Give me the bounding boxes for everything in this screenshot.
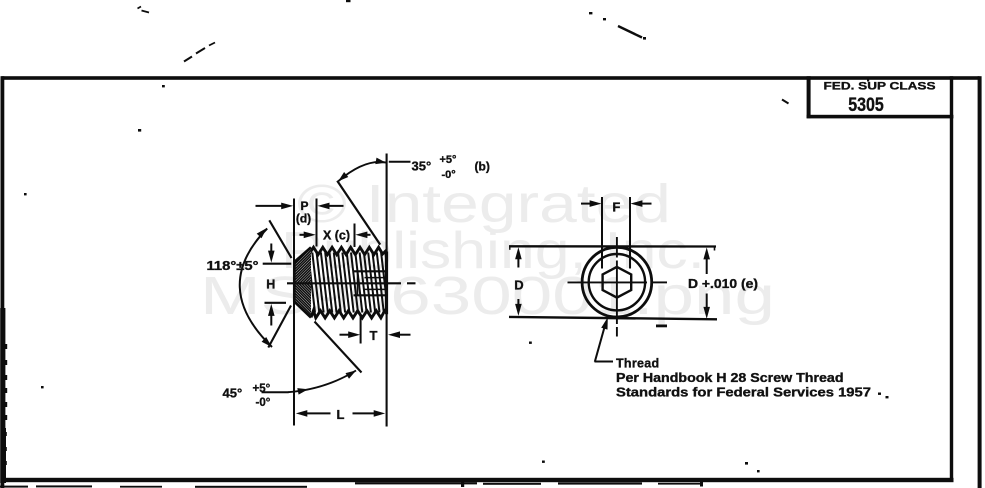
- dimension D left upper arrow: [515, 247, 522, 267]
- chamfer extension line 35deg: [337, 181, 380, 245]
- dimension L left arrow: [296, 410, 331, 417]
- label H: [266, 277, 275, 291]
- F extension line left: [601, 197, 603, 269]
- extension line left (point flat / L datum): [293, 199, 295, 426]
- label D +.010 (e): [688, 277, 758, 291]
- screw thread flank lines: [308, 253, 392, 313]
- cone point hatching bottom: [238, 247, 347, 318]
- dimension P right arrow: [318, 203, 344, 210]
- svg-text:D: D: [514, 278, 523, 293]
- scan speck top-left squiggle: [138, 7, 150, 13]
- H lower arrow: [268, 304, 275, 326]
- dimension D right lower arrow: [703, 294, 710, 319]
- dimension X left arrow: [300, 232, 316, 239]
- border left edge nubs: [0, 308, 7, 483]
- border frame bottom: [1, 478, 954, 482]
- border frame left: [1, 76, 5, 488]
- border frame right inner: [950, 76, 953, 482]
- screw thread crest outline top: [310, 247, 386, 254]
- cone angle arc 118: [240, 228, 272, 347]
- svg-text:+5°: +5°: [253, 383, 271, 395]
- screw centerline: [287, 282, 416, 284]
- label 118 deg +-5: [207, 259, 259, 273]
- socket hidden partial upper: [365, 277, 387, 279]
- label 45 deg: [223, 386, 243, 401]
- scan dash below D dimension: [656, 325, 667, 328]
- screw thread crest outline bottom: [311, 311, 386, 318]
- svg-text:35°: 35°: [412, 159, 432, 174]
- chamfer extension line 45deg: [315, 322, 362, 373]
- label -0 deg (35): [442, 169, 456, 181]
- svg-text:F: F: [612, 200, 620, 215]
- D bottom tangent line: [509, 317, 717, 319]
- svg-text:FED. SUP CLASS: FED. SUP CLASS: [824, 81, 936, 93]
- dimension D left lower arrow: [515, 299, 522, 316]
- dimension L right arrow: [353, 410, 386, 417]
- extension line T left: [360, 316, 362, 344]
- label (d): [296, 212, 311, 226]
- note line 2 handbook: [616, 371, 844, 385]
- svg-text:45°: 45°: [223, 386, 243, 401]
- H upper arrow: [268, 244, 275, 263]
- svg-text:MS90630001.png: MS90630001.png: [200, 266, 775, 326]
- scan dashed slash upper-left: [184, 43, 215, 62]
- socket hidden line lower: [354, 294, 387, 296]
- scan dots right of note: [878, 393, 889, 399]
- svg-text:D +.010 (e): D +.010 (e): [688, 277, 758, 291]
- end view outer circle: [582, 247, 652, 317]
- scan dot inside top area: [162, 85, 165, 87]
- svg-text:-0°: -0°: [256, 397, 271, 409]
- watermark line 1: [297, 174, 671, 234]
- svg-text:-0°: -0°: [442, 169, 456, 181]
- label +5 deg (35): [440, 154, 457, 166]
- label 35 deg: [412, 159, 432, 174]
- end view horizontal centerline: [568, 281, 668, 283]
- label -0 deg (45): [256, 397, 271, 409]
- border outer right line: [978, 76, 982, 488]
- dimension P left arrow: [256, 203, 294, 210]
- svg-text:(d): (d): [296, 212, 311, 226]
- extension line P right / X left: [316, 199, 318, 247]
- svg-text:Per Handbook H 28 Screw Thread: Per Handbook H 28 Screw Thread: [616, 371, 844, 385]
- scan dots bottom right: [745, 462, 760, 472]
- scan dot below circle: [529, 342, 532, 344]
- scan dots and stroke top-right: [589, 12, 646, 40]
- label +5 deg (45): [253, 383, 271, 395]
- dimension X right arrow: [355, 232, 370, 239]
- fed sup class label: [824, 81, 936, 93]
- dimension D right upper arrow: [703, 247, 710, 274]
- svg-text:L: L: [337, 407, 345, 422]
- dimension T left arrow: [340, 331, 361, 338]
- extension line screw right face: [386, 154, 388, 427]
- label T: [370, 328, 378, 343]
- svg-text:Thread: Thread: [616, 357, 659, 371]
- screw right face edge: [385, 252, 388, 315]
- D top tangent line: [509, 246, 716, 250]
- fed sup class value 5305: [848, 94, 884, 116]
- dimension F right arrow: [630, 200, 651, 207]
- leader line to 35 label: [389, 161, 411, 163]
- label L: [337, 407, 345, 422]
- fed sup class box bottom edge: [807, 115, 954, 119]
- scan dot bottom area: [542, 461, 545, 463]
- cone angle ray lower: [268, 306, 291, 348]
- H tick upper: [263, 263, 292, 265]
- dimension T right arrow: [388, 331, 411, 338]
- F extension line right: [629, 197, 631, 269]
- note line 3 standards: [616, 386, 871, 400]
- scan dash top-middle: [346, 0, 351, 2]
- fed sup class box left edge: [807, 76, 811, 118]
- socket hidden partial lower: [365, 288, 387, 290]
- label X (c): [323, 228, 350, 242]
- svg-text:Standards for Federal Services: Standards for Federal Services 1957: [616, 386, 871, 400]
- thread leader line: [595, 317, 614, 362]
- svg-text:118°±5°: 118°±5°: [207, 259, 259, 273]
- end view vertical centerline: [616, 237, 618, 337]
- scan dot left margin: [24, 193, 27, 195]
- svg-text:X (c): X (c): [323, 228, 350, 242]
- socket hidden line upper: [354, 270, 387, 272]
- note line 1 Thread: [616, 357, 659, 371]
- dimension F left arrow: [581, 200, 602, 207]
- watermark line 3: [200, 266, 775, 326]
- svg-text:H: H: [266, 277, 275, 291]
- border frame top: [2, 76, 980, 80]
- watermark line 2: [281, 222, 705, 280]
- H tick lower: [265, 302, 287, 304]
- end view minor-dia circle: [589, 254, 645, 310]
- svg-text:T: T: [370, 328, 378, 343]
- svg-text:+5°: +5°: [440, 154, 457, 166]
- extension line X right: [354, 224, 356, 248]
- svg-text:(b): (b): [475, 160, 490, 174]
- hex socket: [603, 267, 632, 298]
- scan dot lower-left: [41, 386, 44, 388]
- label F: [612, 200, 620, 215]
- label D left: [514, 278, 523, 293]
- svg-text:5305: 5305: [848, 94, 884, 116]
- label (b): [475, 160, 490, 174]
- scan mark left: [138, 129, 141, 132]
- scan tick left of fed box: [782, 100, 789, 104]
- angle arc 35: [338, 158, 386, 182]
- socket hidden line bottom: [357, 271, 359, 295]
- leader tail 45 label: [262, 391, 289, 393]
- angle arc 45: [288, 370, 356, 394]
- cone point hatching top: [254, 247, 347, 302]
- scan dot above sup: [867, 80, 869, 82]
- cone point outline: [294, 247, 311, 317]
- border bottom broken scan line: [0, 482, 703, 488]
- cone angle ray upper: [269, 220, 291, 258]
- label P: [300, 199, 308, 213]
